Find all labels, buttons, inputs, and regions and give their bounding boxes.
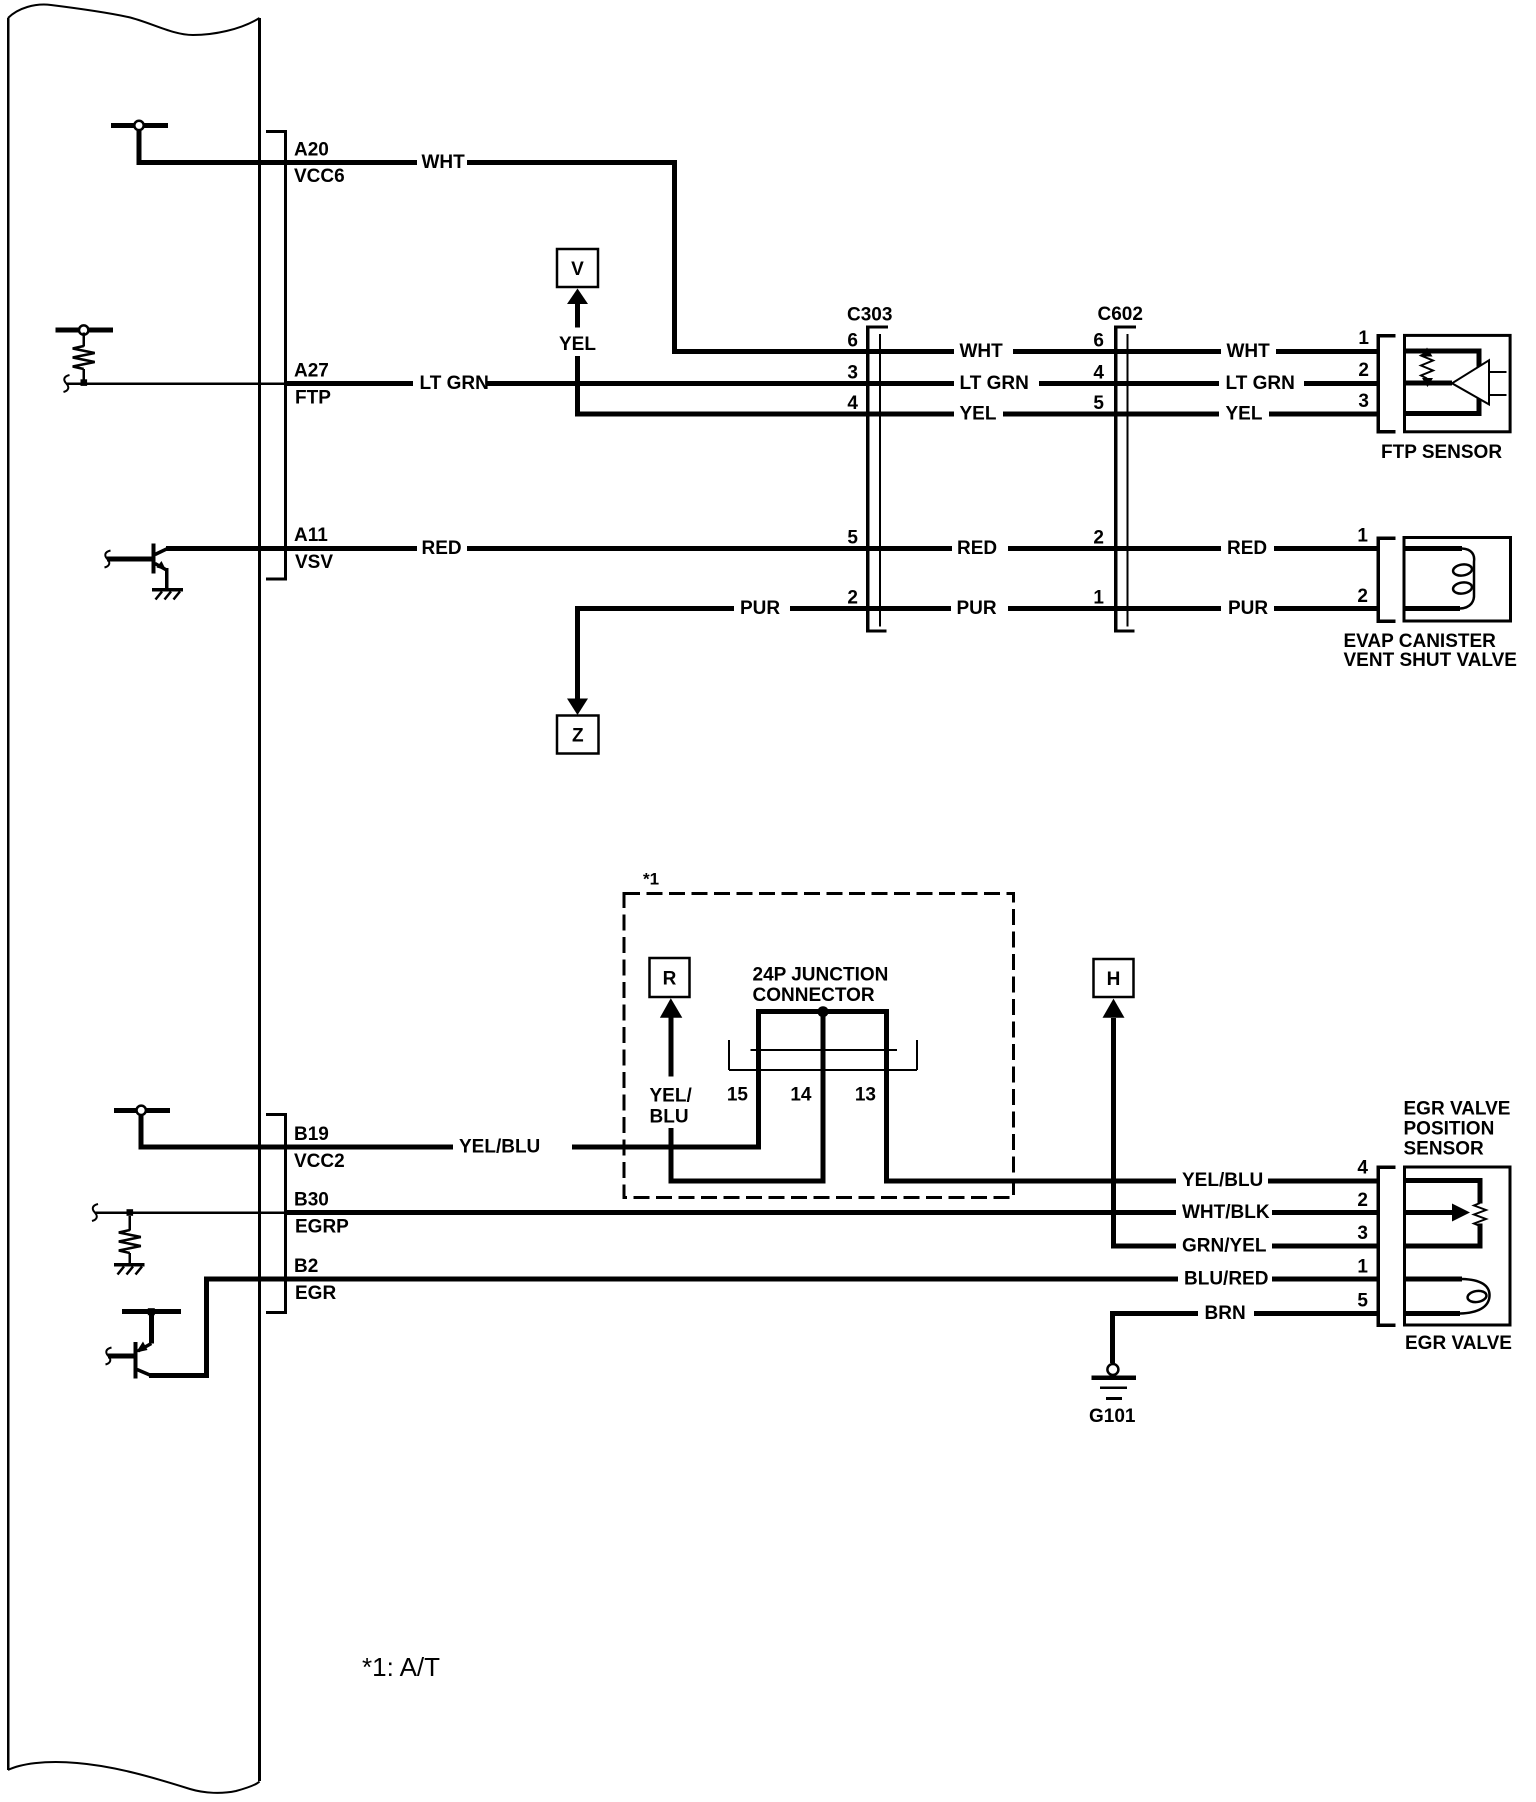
connector V (to fuse box) (557, 249, 598, 328)
EGR valve position sensor + EGR valve (potentiometer and coil) (1405, 1167, 1512, 1354)
svg-text:YEL: YEL (960, 404, 997, 425)
chassis ground (Q1 emitter) (152, 590, 183, 600)
svg-text:EGRP: EGRP (295, 1217, 349, 1238)
svg-text:B2: B2 (294, 1256, 318, 1277)
wire-break hook (A27 internal) (64, 375, 70, 392)
svg-text:Z: Z (572, 726, 584, 747)
svg-text:YEL/BLU: YEL/BLU (1182, 1170, 1263, 1191)
ECM top torn edge (8, 5, 260, 35)
svg-text:15: 15 (727, 1085, 749, 1106)
svg-text:A20: A20 (294, 140, 329, 161)
chassis ground (EGRP resistor) (114, 1265, 145, 1275)
wire B19 YEL/BLU (to 24P pin 15) (139, 1145, 761, 1150)
svg-text:YEL/BLU: YEL/BLU (459, 1137, 540, 1158)
svg-text:FTP SENSOR: FTP SENSOR (1381, 442, 1502, 463)
EGR valve position sensor name (1404, 1099, 1511, 1160)
svg-text:VCC6: VCC6 (294, 166, 345, 187)
svg-text:6: 6 (847, 331, 858, 352)
svg-text:2: 2 (1357, 586, 1368, 607)
svg-text:EGR VALVE: EGR VALVE (1405, 1333, 1512, 1354)
wire BRN (EGR valve pin 5 to G101) (1110, 1311, 1377, 1316)
wire A20 WHT (ECM to C303 pin 6) (137, 160, 1378, 354)
ECM/PCM module box (torn edges) (8, 18, 260, 1781)
svg-text:RED: RED (1227, 538, 1267, 559)
svg-text:B19: B19 (294, 1124, 329, 1145)
EVAP canister vent shut valve connector bracket (1378, 538, 1395, 621)
ground G101 (1089, 1311, 1136, 1427)
connector Z (arrow down) (557, 606, 599, 754)
svg-text:BLU: BLU (650, 1107, 689, 1128)
svg-text:R: R (663, 969, 677, 990)
svg-text:A27: A27 (294, 361, 329, 382)
ECM bottom torn edge (8, 1762, 260, 1793)
pull-up resistor for FTP input (inside ECM) (56, 325, 114, 386)
EVAP canister vent shut valve (solenoid coil) (1344, 538, 1517, 672)
svg-text:WHT: WHT (960, 341, 1004, 362)
EGR valve assembly connector bracket (1378, 1167, 1395, 1325)
svg-text:VCC2: VCC2 (294, 1151, 345, 1172)
pin B30 label (294, 1190, 349, 1238)
svg-text:4: 4 (847, 393, 858, 414)
svg-text:3: 3 (847, 363, 858, 384)
svg-text:BRN: BRN (1205, 1303, 1246, 1324)
svg-text:CONNECTOR: CONNECTOR (753, 985, 875, 1006)
svg-text:SENSOR: SENSOR (1404, 1139, 1485, 1160)
transistor Q1 VSV driver (inside ECM) (105, 544, 169, 590)
svg-text:LT GRN: LT GRN (1226, 373, 1295, 394)
svg-text:EGR VALVE: EGR VALVE (1404, 1099, 1511, 1120)
svg-text:EVAP CANISTER: EVAP CANISTER (1344, 631, 1497, 652)
pull-down resistor for EGRP input (inside ECM) (92, 1204, 286, 1265)
connector R (arrow up) (650, 958, 826, 1181)
connector C602 (1093, 304, 1143, 633)
svg-text:YEL: YEL (559, 334, 596, 355)
svg-text:*1: *1 (643, 870, 659, 889)
svg-text:1: 1 (1357, 526, 1368, 547)
svg-text:VENT SHUT VALVE: VENT SHUT VALVE (1344, 650, 1517, 671)
pin B2 label (294, 1256, 336, 1304)
svg-text:G101: G101 (1089, 1406, 1136, 1427)
wire YEL (V to C303 pin 4) (575, 356, 1377, 417)
pull-up switch contact to VCC2 (inside ECM) (114, 1106, 170, 1150)
svg-text:1: 1 (1093, 588, 1104, 609)
svg-text:5: 5 (1093, 393, 1104, 414)
24P junction connector (727, 965, 1176, 1184)
svg-text:POSITION: POSITION (1404, 1119, 1495, 1140)
wire A11 RED (to C303 pin 5) (166, 546, 1377, 551)
A/T option dashed box *1 (624, 870, 1014, 1198)
pull-up switch contact to VCC6 (inside ECM) (111, 121, 168, 165)
svg-text:4: 4 (1357, 1158, 1368, 1179)
pin A11 label (294, 525, 333, 573)
wire YEL/BLU (24P pin 13 to EGR valve position sensor pin 4) (1268, 1179, 1377, 1184)
svg-text:RED: RED (422, 538, 462, 559)
svg-text:FTP: FTP (295, 388, 331, 409)
connector H (arrow up) (1094, 959, 1134, 1249)
svg-text:*1: A/T: *1: A/T (362, 1652, 440, 1682)
svg-text:1: 1 (1357, 1257, 1368, 1278)
wire GRN/YEL (H to EGR valve position sensor pin 3) (1111, 1244, 1377, 1249)
svg-text:3: 3 (1358, 391, 1369, 412)
pin B19 label (294, 1124, 345, 1172)
svg-text:1: 1 (1358, 328, 1369, 349)
svg-text:6: 6 (1093, 331, 1104, 352)
svg-text:5: 5 (847, 528, 858, 549)
wire A27 LT GRN (286, 381, 1377, 386)
svg-text:YEL/: YEL/ (650, 1086, 693, 1107)
svg-text:WHT/BLK: WHT/BLK (1182, 1202, 1270, 1223)
svg-text:2: 2 (1093, 528, 1104, 549)
svg-text:VSV: VSV (295, 552, 333, 573)
FTP sensor connector bracket (1378, 336, 1395, 432)
wire B2 BLU/RED (EGR to EGR valve pin 1) (149, 1279, 1377, 1376)
svg-text:PUR: PUR (1228, 598, 1268, 619)
svg-text:PUR: PUR (740, 598, 780, 619)
ECM connector bracket B (pins B19/B30/B2) (266, 1115, 286, 1313)
svg-text:V: V (571, 259, 584, 280)
svg-text:5: 5 (1357, 1291, 1368, 1312)
pin A27 label (294, 361, 331, 409)
svg-text:YEL: YEL (1226, 404, 1263, 425)
svg-text:WHT: WHT (1227, 341, 1271, 362)
wire B30 WHT/BLK (EGRP to EGR valve position sensor pin 2) (286, 1210, 1377, 1215)
svg-text:LT GRN: LT GRN (960, 373, 1029, 394)
svg-text:2: 2 (1357, 1190, 1368, 1211)
FTP sensor (potentiometer + buffer) (1381, 335, 1510, 463)
svg-text:B30: B30 (294, 1190, 329, 1211)
svg-text:BLU/RED: BLU/RED (1184, 1269, 1268, 1290)
svg-text:14: 14 (790, 1085, 812, 1106)
svg-text:2: 2 (847, 588, 858, 609)
svg-text:24P JUNCTION: 24P JUNCTION (753, 965, 889, 986)
svg-text:EGR: EGR (295, 1283, 336, 1304)
svg-text:RED: RED (957, 538, 997, 559)
svg-text:3: 3 (1357, 1223, 1368, 1244)
svg-text:4: 4 (1093, 363, 1104, 384)
svg-text:C602: C602 (1098, 304, 1143, 325)
svg-text:PUR: PUR (957, 598, 997, 619)
svg-text:C303: C303 (847, 305, 892, 326)
wire A27 internal (thin) (66, 382, 286, 385)
svg-text:LT GRN: LT GRN (420, 373, 489, 394)
connector C303 (847, 305, 892, 633)
pin A20 label (294, 140, 345, 188)
svg-text:H: H (1107, 969, 1121, 990)
svg-text:13: 13 (855, 1085, 876, 1106)
ECM connector bracket A (pins A20/A27/A11) (266, 132, 286, 580)
svg-text:GRN/YEL: GRN/YEL (1182, 1236, 1267, 1257)
transistor Q2 EGR driver (inside ECM) (106, 1308, 182, 1378)
svg-text:A11: A11 (294, 525, 328, 546)
wire PUR (Z to C303 pin 2) (575, 606, 1377, 611)
svg-text:WHT: WHT (422, 152, 466, 173)
svg-text:2: 2 (1358, 360, 1369, 381)
